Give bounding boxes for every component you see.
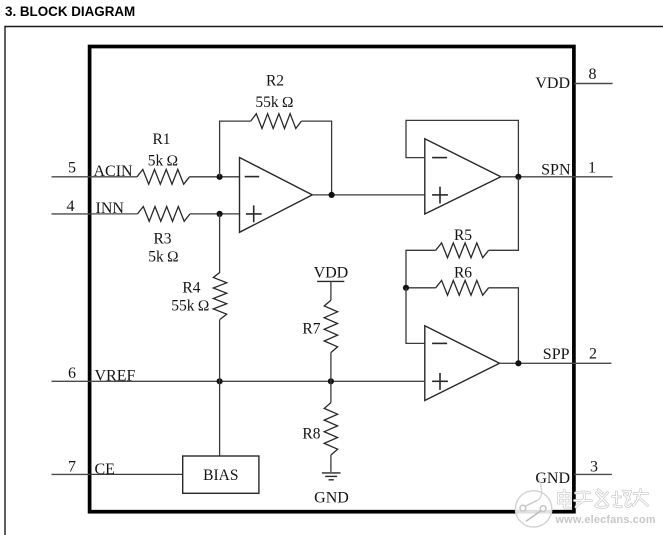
op-amp U3 xyxy=(425,326,500,401)
node VREF-R4 junction dot xyxy=(217,378,223,384)
wire VREF node down to BIAS xyxy=(219,381,221,456)
svg-text:55k Ω: 55k Ω xyxy=(255,94,293,111)
svg-text:4: 4 xyxy=(67,198,75,215)
svg-text:7: 7 xyxy=(68,458,76,475)
svg-text:VREF: VREF xyxy=(95,368,136,385)
wire VREF node to R8 xyxy=(330,381,332,402)
svg-text:SPP: SPP xyxy=(543,346,570,363)
node SPN junction dot xyxy=(515,174,521,180)
svg-text:5: 5 xyxy=(68,160,76,177)
pin 7 line xyxy=(52,473,90,475)
svg-text:VDD: VDD xyxy=(535,75,570,92)
svg-text:R5: R5 xyxy=(454,227,472,244)
resistor R8 xyxy=(324,403,337,455)
watermark chinese characters xyxy=(559,490,648,509)
svg-text:R8: R8 xyxy=(302,425,320,442)
resistor R5 xyxy=(436,243,489,258)
svg-text:CE: CE xyxy=(95,461,115,478)
wire R7 to VREF node xyxy=(330,353,332,382)
op-amp U2 xyxy=(425,139,501,214)
wire CE to BIAS xyxy=(90,473,183,475)
svg-text:55k Ω: 55k Ω xyxy=(171,298,209,315)
node B junction dot (U1 non-inverting input) xyxy=(217,211,223,217)
resistor R2 xyxy=(251,114,302,129)
wire R1 to node A xyxy=(190,176,240,178)
U3 minus sign xyxy=(432,342,447,344)
svg-text:R6: R6 xyxy=(454,264,472,281)
resistor R6 xyxy=(436,280,489,295)
svg-text:R4: R4 xyxy=(182,280,200,297)
pin 5 line xyxy=(52,176,90,178)
svg-text:ACIN: ACIN xyxy=(94,163,134,180)
U1 minus sign xyxy=(245,176,260,178)
op-amp U1 xyxy=(240,158,313,233)
svg-text:1: 1 xyxy=(588,159,596,176)
svg-text:8: 8 xyxy=(589,66,597,83)
svg-text:6: 6 xyxy=(68,365,76,382)
pin 3 line xyxy=(574,473,612,475)
wire node B down to R4 xyxy=(219,214,221,272)
node C junction dot xyxy=(403,285,409,291)
wire R6 left node C to U3 inverting input xyxy=(406,287,436,289)
watermark logo circle xyxy=(515,479,551,528)
wire R3 to node B xyxy=(190,213,240,215)
pin 4 line xyxy=(52,213,90,215)
svg-text:GND: GND xyxy=(314,489,349,506)
U2 feedback wire xyxy=(406,120,518,176)
wire U3 output to pin 2 xyxy=(500,362,612,364)
VREF wire to U3 non-inverting input xyxy=(90,380,425,382)
R2 feedback wire (right riser to U1 output) xyxy=(301,121,331,195)
wire R5 left to node C xyxy=(406,250,436,287)
svg-text:R1: R1 xyxy=(152,131,170,148)
svg-text:5k Ω: 5k Ω xyxy=(148,153,179,170)
pin 6 line xyxy=(52,380,90,382)
wire R6 right to SPP node xyxy=(489,288,519,364)
wire VDD bar to R7 xyxy=(330,281,332,300)
U3 plus sign xyxy=(432,380,448,382)
BIAS block xyxy=(183,456,259,493)
svg-text:www.elecfans.com: www.elecfans.com xyxy=(555,514,656,526)
pin 8 line xyxy=(574,83,613,85)
wire R8 to ground xyxy=(330,455,332,472)
wire ACIN to R1 xyxy=(90,176,137,178)
wire U1 output to U2 input xyxy=(312,194,425,196)
node A junction dot (U1 inverting input) xyxy=(217,174,223,180)
resistor R1 xyxy=(137,169,190,184)
svg-text:SPN: SPN xyxy=(541,161,571,178)
ground symbol xyxy=(322,472,341,474)
resistor R7 xyxy=(324,300,337,352)
wire U2 output to pin 1 xyxy=(501,176,613,178)
VDD rail bar xyxy=(317,280,344,282)
wire SPN node down to R5 xyxy=(489,177,519,251)
U1 plus sign xyxy=(246,213,262,215)
U2 plus sign xyxy=(432,194,448,196)
svg-text:5k Ω: 5k Ω xyxy=(148,249,179,266)
svg-text:2: 2 xyxy=(589,346,597,363)
node U1 output junction dot xyxy=(329,192,335,198)
resistor R3 xyxy=(138,207,191,222)
resistor R4 xyxy=(213,272,226,319)
U2 minus sign xyxy=(432,157,447,159)
svg-text:3. BLOCK DIAGRAM: 3. BLOCK DIAGRAM xyxy=(5,4,135,19)
wire node C down to U3 minus xyxy=(406,288,425,344)
svg-text:R2: R2 xyxy=(266,73,284,90)
resistor R2 feedback wire (left riser) xyxy=(220,121,251,177)
svg-text:R3: R3 xyxy=(153,230,171,247)
wire R4 to VREF node xyxy=(219,319,221,381)
node VREF-R7R8 junction dot xyxy=(328,378,334,384)
block border (thick rectangle) xyxy=(90,47,574,512)
svg-text:3: 3 xyxy=(590,458,598,475)
svg-text:BIAS: BIAS xyxy=(203,467,238,484)
node SPP junction dot xyxy=(515,360,521,366)
svg-text:VDD: VDD xyxy=(314,265,349,282)
wire INN to R3 xyxy=(90,213,138,215)
svg-text:R7: R7 xyxy=(302,321,320,338)
